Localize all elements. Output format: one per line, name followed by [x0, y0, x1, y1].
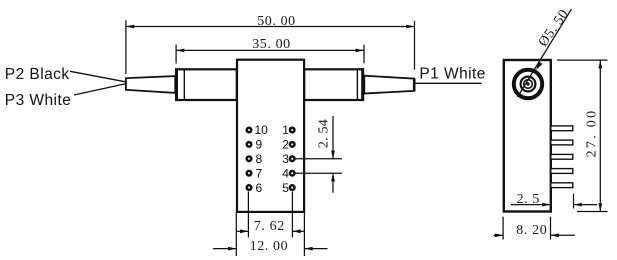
pin 6 — [247, 181, 263, 195]
dimension 12.00 — [213, 213, 328, 257]
svg-text:27. 00: 27. 00 — [584, 109, 599, 158]
dimension 2.5 — [511, 194, 597, 209]
dimension 27.00 — [557, 60, 608, 211]
pin 4 — [282, 166, 294, 180]
svg-text:5: 5 — [282, 181, 289, 195]
wire leader P3 — [74, 84, 126, 95]
dimension 7.62 — [236, 192, 304, 238]
fiber P1 — [416, 82, 482, 84]
svg-text:P3 White: P3 White — [5, 92, 72, 109]
svg-text:9: 9 — [256, 138, 263, 152]
svg-text:4: 4 — [282, 166, 289, 180]
dimension 2.54 — [296, 116, 343, 193]
right sleeve tube — [304, 68, 363, 101]
svg-text:8. 20: 8. 20 — [516, 223, 547, 238]
svg-text:3: 3 — [282, 152, 289, 166]
pin 7 — [247, 166, 263, 180]
dimension 8.20 — [494, 217, 575, 240]
dimension 50.00 — [126, 20, 415, 74]
pin 2 — [282, 138, 294, 152]
pin 9 — [247, 138, 263, 152]
pin 5 — [282, 181, 294, 195]
wire leader P2 — [70, 71, 126, 82]
svg-text:7. 62: 7. 62 — [254, 219, 285, 234]
svg-text:2. 5: 2. 5 — [517, 192, 540, 207]
right fiber boot — [364, 76, 414, 94]
svg-text:7: 7 — [256, 166, 263, 180]
svg-text:P1 White: P1 White — [419, 66, 486, 83]
pin 3 — [282, 152, 294, 166]
svg-text:12. 00: 12. 00 — [250, 239, 289, 254]
connector barrel circles — [514, 70, 542, 98]
side pins comb — [551, 126, 573, 188]
left sleeve tube — [176, 68, 236, 101]
svg-text:35. 00: 35. 00 — [252, 37, 291, 52]
pin 10 — [247, 123, 268, 137]
pin 1 — [282, 123, 294, 137]
left fiber boot — [126, 76, 175, 93]
pin 8 — [247, 152, 263, 166]
svg-text:50. 00: 50. 00 — [257, 14, 296, 29]
svg-text:P2 Black: P2 Black — [5, 66, 70, 83]
svg-text:6: 6 — [256, 181, 263, 195]
dimension 35.00 — [176, 45, 364, 64]
switch block body — [237, 60, 304, 212]
leader diameter 5.50 — [518, 9, 572, 97]
svg-text:8: 8 — [256, 152, 263, 166]
svg-text:10: 10 — [255, 123, 269, 137]
svg-text:2: 2 — [282, 138, 289, 152]
svg-text:1: 1 — [282, 123, 289, 137]
side view body — [504, 60, 551, 212]
svg-text:2. 54: 2. 54 — [317, 119, 332, 148]
